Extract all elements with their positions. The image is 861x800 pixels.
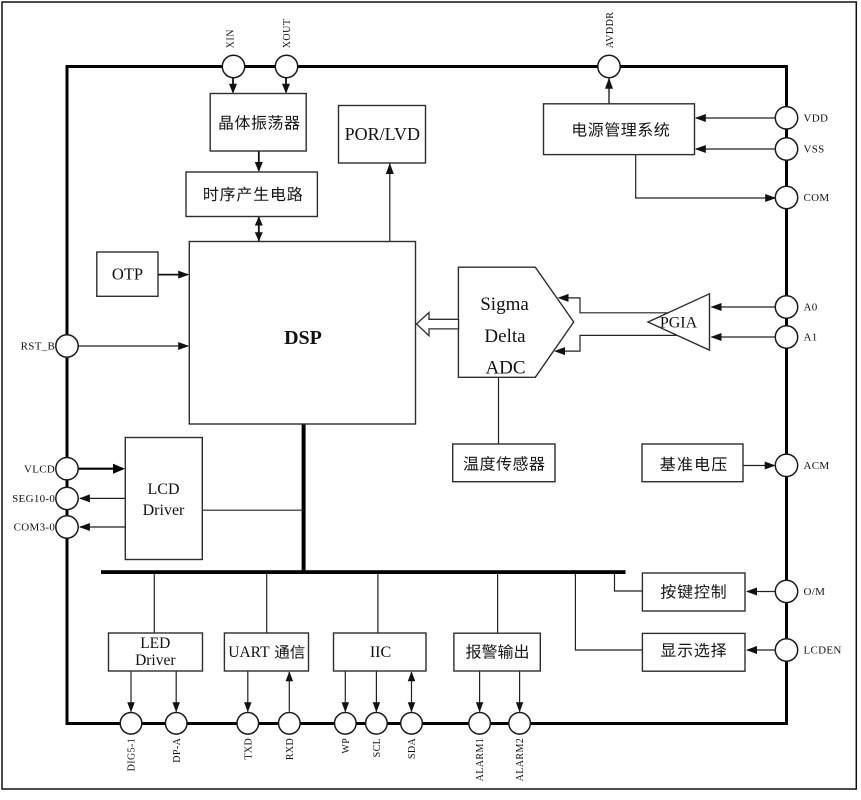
svg-text:LCDEN: LCDEN — [804, 645, 842, 657]
wire O/M to key control — [747, 591, 775, 593]
wire XIN to crystal — [232, 78, 234, 93]
svg-text:XIN: XIN — [226, 29, 237, 48]
pin VSS — [775, 138, 797, 160]
pin A0 — [775, 296, 797, 318]
wire LED driver to DIG5-1 — [130, 671, 132, 712]
svg-text:RST_B: RST_B — [21, 341, 56, 353]
pin ACM — [775, 454, 797, 476]
wire VDD to power mgmt — [696, 117, 776, 119]
block crystal oscillator — [210, 94, 306, 152]
svg-text:SEG10-0: SEG10-0 — [12, 493, 55, 505]
pin A1 — [775, 326, 797, 348]
svg-text:VDD: VDD — [804, 113, 829, 125]
svg-text:O/M: O/M — [804, 586, 826, 598]
svg-text:ALARM2: ALARM2 — [515, 738, 526, 782]
pin O/M — [775, 580, 797, 602]
block OTP — [97, 252, 158, 296]
wire bus to alarm out — [497, 574, 499, 633]
pin SCL — [366, 713, 388, 735]
wire VLCD to LCD driver — [78, 468, 123, 470]
svg-text:A0: A0 — [804, 302, 818, 314]
pin ALARM1 — [469, 713, 491, 735]
svg-text:AVDDR: AVDDR — [605, 12, 616, 49]
block voltage reference — [642, 444, 743, 482]
pin XOUT — [275, 55, 297, 77]
wire power mgmt to COM — [635, 155, 637, 198]
wire OTP to DSP — [158, 274, 188, 276]
pin SEG10-0 — [56, 487, 78, 509]
wire XOUT to crystal — [285, 78, 287, 93]
svg-text:ALARM1: ALARM1 — [475, 738, 486, 782]
wire RST_B to DSP — [78, 345, 188, 347]
pin TXD — [237, 713, 259, 735]
wire LCD driver to bus — [202, 509, 303, 511]
svg-text:A1: A1 — [804, 332, 818, 344]
svg-text:Driver: Driver — [143, 502, 185, 519]
block LED driver — [109, 633, 203, 671]
DSP bus thick vertical wire — [302, 424, 306, 574]
pin RST_B — [56, 335, 78, 357]
block power management — [544, 104, 695, 155]
block timing generator — [186, 172, 317, 217]
block display select — [642, 633, 745, 671]
wire bus to key control — [615, 573, 643, 591]
svg-text:WP: WP — [341, 738, 352, 754]
wire bus to IIC — [377, 574, 379, 633]
svg-text:XOUT: XOUT — [282, 19, 293, 49]
wire bus to UART — [266, 574, 268, 633]
wire alarm out to ALARM1 — [479, 671, 481, 712]
svg-text:Driver: Driver — [135, 652, 176, 669]
svg-text:RXD: RXD — [285, 738, 296, 760]
wire crystal to timing — [258, 151, 260, 171]
svg-text:ADC: ADC — [485, 358, 525, 379]
pin LCDEN — [775, 639, 797, 661]
block key control — [642, 573, 745, 611]
wire A1 to PGIA — [712, 336, 776, 338]
pin WP — [335, 713, 357, 735]
svg-text:DP-A: DP-A — [172, 737, 183, 762]
wire IIC to SDA double arrow — [411, 672, 413, 712]
svg-text:SCL: SCL — [372, 738, 383, 758]
pin AVDDR — [598, 55, 620, 77]
pin VLCD — [56, 458, 78, 480]
svg-text:IIC: IIC — [370, 644, 391, 661]
pin COM — [775, 186, 797, 208]
svg-text:TXD: TXD — [243, 738, 254, 760]
pin DIG5-1 — [120, 713, 142, 735]
wire LCD driver to COM3-0 — [80, 526, 125, 528]
svg-text:COM3-0: COM3-0 — [14, 522, 56, 534]
wire LCD driver to SEG10-0 — [80, 497, 125, 499]
wire ADC to temp sensor — [498, 378, 500, 445]
wire alarm out to ALARM2 — [519, 671, 521, 712]
pin COM3-0 — [56, 516, 78, 538]
svg-text:DIG5-1: DIG5-1 — [127, 738, 138, 772]
wire bus to display select — [575, 573, 642, 650]
svg-text:DSP: DSP — [284, 327, 322, 349]
wire IIC to WP — [344, 671, 346, 712]
pin ALARM2 — [509, 713, 531, 735]
wire IIC to SCL — [375, 671, 377, 712]
block arrow ADC to DSP — [417, 313, 459, 336]
wire DSP to POR/LVD — [389, 164, 391, 242]
wire power mgmt to AVDDR — [608, 79, 610, 105]
wire VSS to power mgmt — [696, 148, 776, 150]
svg-text:POR/LVD: POR/LVD — [345, 124, 420, 144]
svg-text:Sigma: Sigma — [480, 294, 529, 315]
wire vref to ACM — [743, 465, 774, 467]
block alarm output — [454, 633, 540, 671]
block UART — [224, 633, 308, 671]
pin XIN — [222, 55, 244, 77]
wire bus to LED driver — [153, 574, 155, 633]
block IIC — [334, 633, 427, 671]
block LCD driver — [125, 438, 202, 560]
wire timing to DSP double arrow — [258, 217, 260, 241]
wire LCDEN to display select — [747, 649, 775, 651]
svg-text:PGIA: PGIA — [660, 314, 698, 331]
pin SDA — [401, 713, 423, 735]
svg-text:ACM: ACM — [804, 460, 830, 472]
pin VDD — [775, 107, 797, 129]
wire PGIA to ADC lower — [565, 335, 678, 351]
wire RXD to UART — [288, 672, 290, 712]
pin DP-A — [165, 713, 187, 735]
svg-text:LED: LED — [140, 635, 170, 652]
block POR/LVD — [339, 106, 426, 164]
block temperature sensor — [453, 444, 555, 482]
svg-text:VLCD: VLCD — [24, 463, 55, 475]
svg-text:LCD: LCD — [148, 481, 180, 498]
svg-text:OTP: OTP — [112, 265, 143, 284]
chip boundary — [67, 67, 787, 724]
svg-text:COM: COM — [804, 192, 830, 204]
svg-text:SDA: SDA — [407, 737, 418, 759]
horizontal bus wire — [101, 570, 626, 574]
svg-text:Delta: Delta — [484, 326, 526, 347]
amplifier PGIA — [648, 294, 710, 350]
svg-text:VSS: VSS — [804, 144, 825, 156]
block Sigma Delta ADC — [458, 267, 573, 377]
wire UART to TXD — [247, 671, 249, 712]
block DSP — [189, 242, 415, 425]
wire LED driver to DP-A — [175, 671, 177, 712]
wire PGIA to ADC upper — [568, 298, 669, 313]
pin RXD — [279, 713, 301, 735]
wire A0 to PGIA — [712, 306, 776, 308]
svg-text:UART: UART — [228, 644, 270, 661]
